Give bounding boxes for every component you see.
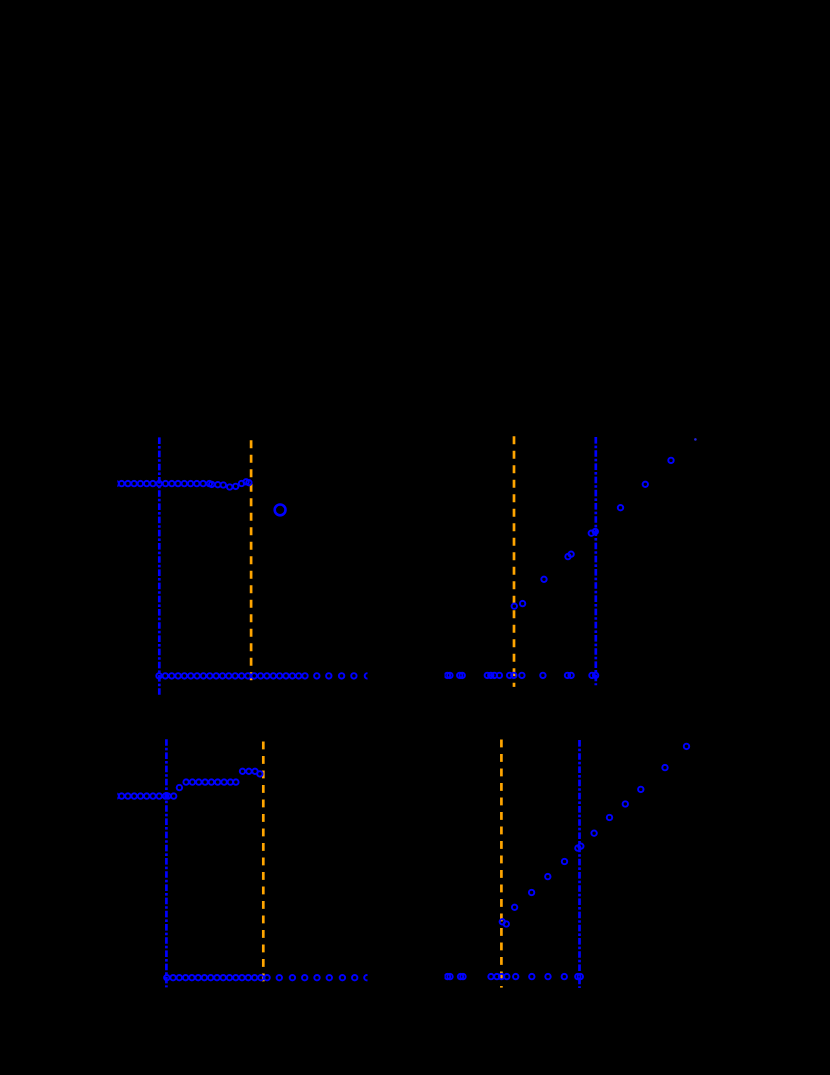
scatter BR bottom row [445, 974, 583, 979]
vline blue dashdot BL [165, 739, 168, 987]
vline orange dashed BR [500, 740, 503, 988]
panel top-left [114, 437, 371, 694]
isolated large ring TL [275, 505, 286, 516]
scatter TL top row end wiggle [209, 479, 252, 490]
scatter BL bottom row [164, 975, 369, 980]
vline orange dashed BL [262, 742, 265, 988]
vline blue dashdot TL [158, 437, 161, 694]
scatter TR bottom row [445, 673, 599, 678]
faint clipped marker TR top [694, 438, 697, 441]
vline orange dashed TR [513, 436, 516, 687]
panel bottom-left [114, 739, 370, 987]
scatter BL step row mid [183, 779, 238, 784]
scatter TR diagonal [512, 458, 674, 609]
vline blue dashdot BR [578, 740, 581, 988]
scatter TL top row dense [114, 481, 213, 486]
scatter BL step row low [114, 793, 177, 798]
vline orange dashed TL [250, 440, 253, 685]
vline blue dashdot TR [594, 437, 597, 685]
scatter TL bottom row [156, 673, 370, 678]
panel top-right [445, 436, 697, 687]
scatter BR diagonal [500, 744, 690, 927]
panel bottom-right [445, 740, 689, 989]
scatter BL step row high [240, 769, 258, 774]
scatter BL transition ring [177, 785, 182, 790]
scatter BL partial ring near orange line [257, 771, 262, 776]
